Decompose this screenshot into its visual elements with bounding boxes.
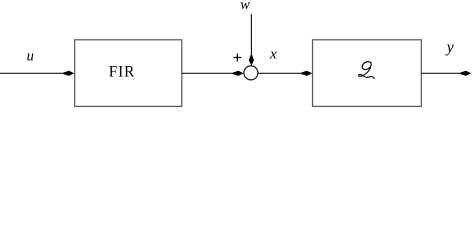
label plus sign [234, 54, 242, 62]
summing junction circle [244, 66, 258, 80]
label FIR [109, 64, 136, 81]
svg-text:u: u [27, 48, 34, 64]
arrowhead w into summing junction [249, 55, 254, 66]
arrowhead output [460, 71, 471, 76]
wire FIR to summing junction [182, 72, 235, 74]
svg-text:w: w [240, 0, 250, 13]
svg-text:y: y [445, 39, 455, 56]
svg-text:FIR: FIR [109, 64, 136, 81]
wire w vertical [250, 14, 252, 57]
block FIR box [75, 40, 182, 107]
wire summing junction to Q [258, 72, 304, 74]
label w [240, 0, 250, 13]
arrowhead into summing junction [233, 71, 244, 76]
block Q box [313, 40, 422, 107]
label script Q glyph [359, 60, 375, 79]
svg-text:x: x [269, 45, 277, 62]
wire input u line [0, 72, 66, 74]
arrowhead into FIR [63, 71, 74, 76]
label x [269, 45, 277, 62]
label y [445, 39, 455, 56]
label u [27, 48, 34, 64]
wire output y [421, 72, 463, 74]
arrowhead into Q [301, 71, 312, 76]
